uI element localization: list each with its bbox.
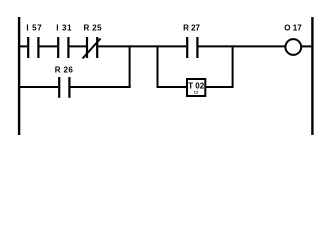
svg-text:R 26: R 26 (55, 65, 74, 74)
svg-text:R 27: R 27 (183, 24, 200, 33)
svg-text:I 31: I 31 (56, 24, 72, 33)
svg-text:O 17: O 17 (284, 24, 302, 33)
svg-text:I 57: I 57 (26, 24, 42, 33)
svg-text:12: 12 (194, 89, 199, 94)
svg-text:R 25: R 25 (84, 24, 103, 33)
